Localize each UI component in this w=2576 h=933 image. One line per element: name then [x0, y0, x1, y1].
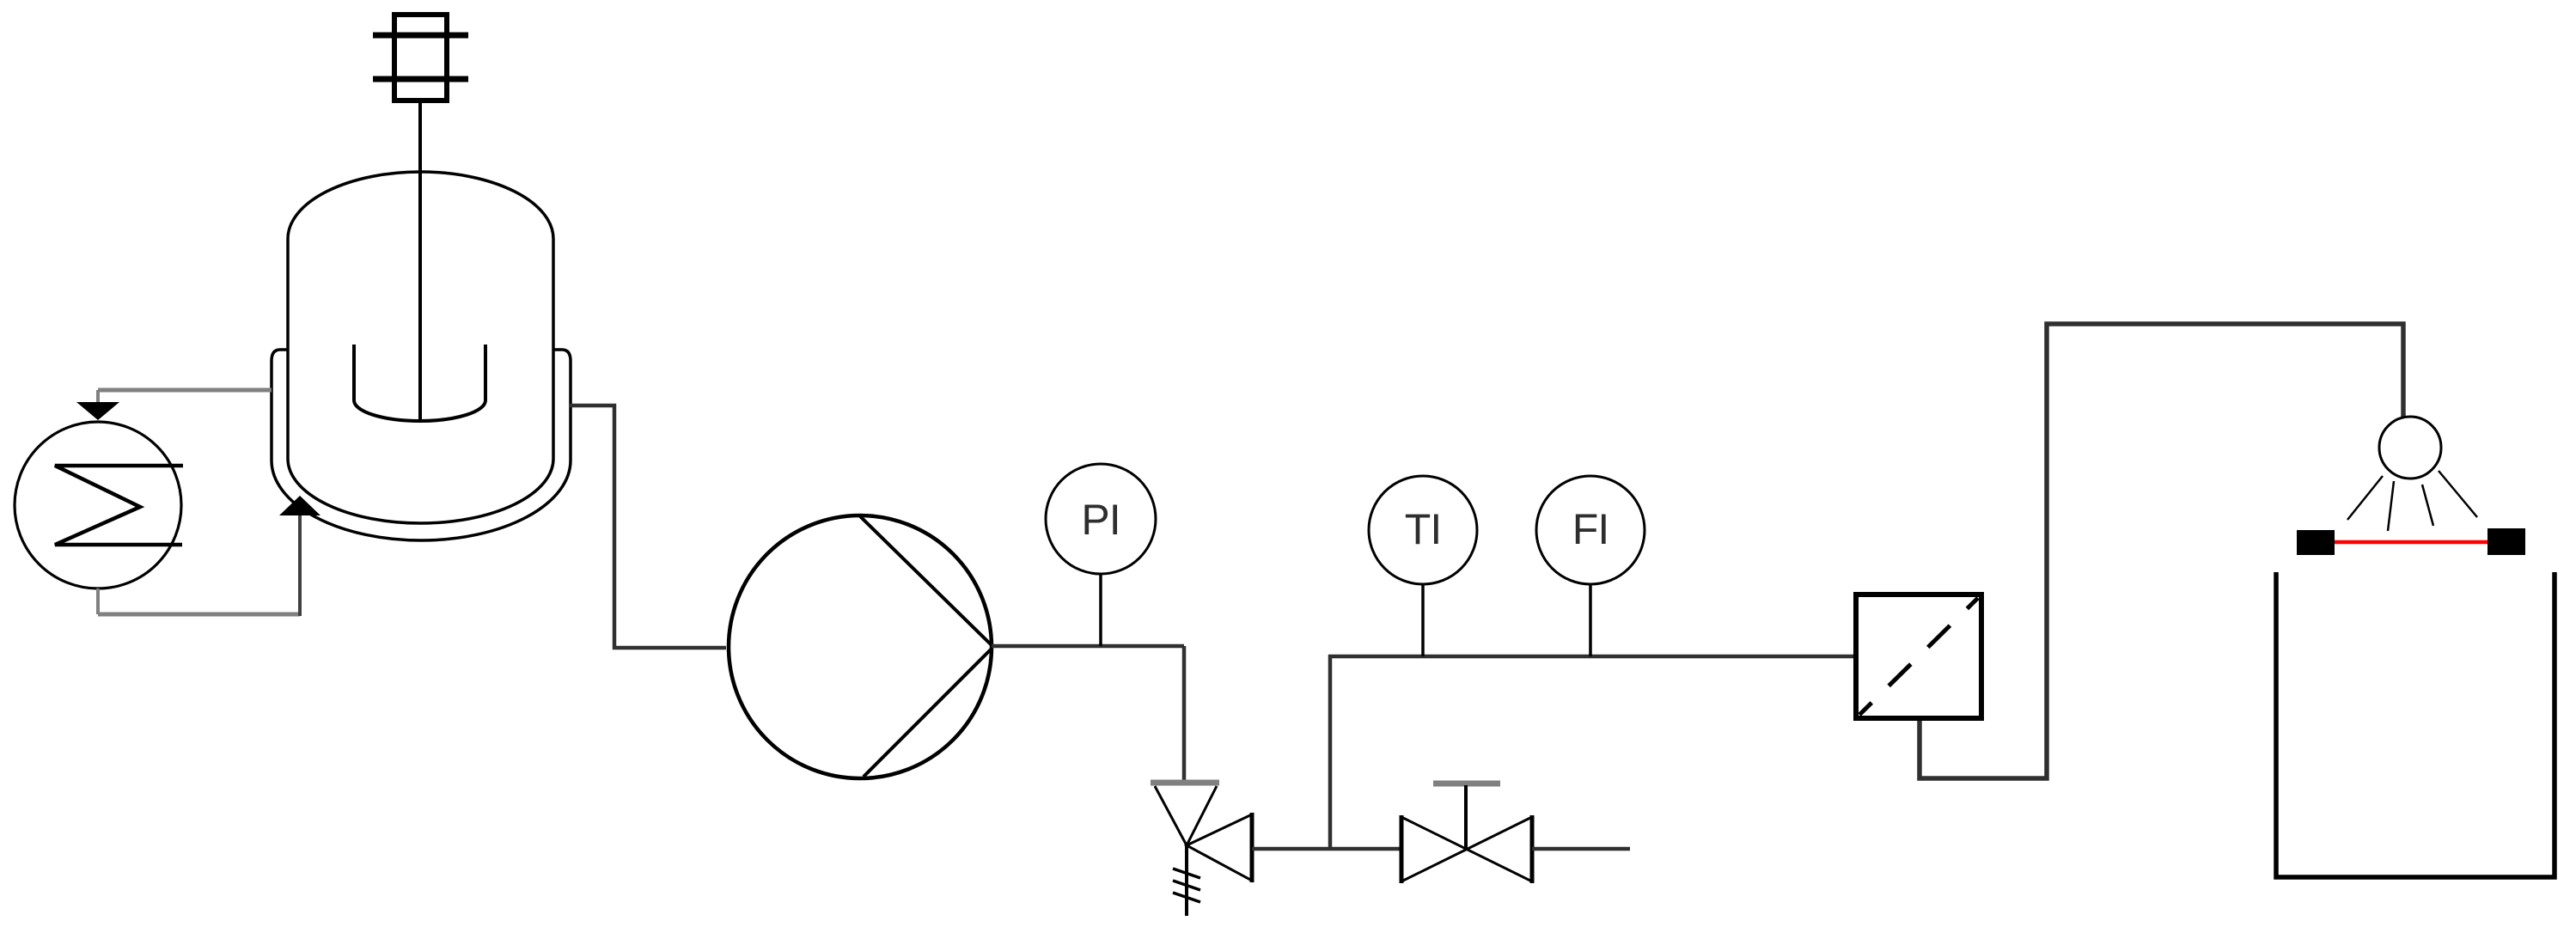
sparger tube (red) — [2335, 540, 2487, 545]
TI stem — [1421, 584, 1425, 656]
pump P1 — [729, 515, 992, 778]
spray line 4 — [2439, 471, 2477, 517]
impeller — [354, 345, 485, 421]
pipe: jacket outlet to heat exchanger (gray) — [98, 388, 272, 393]
gate valve right edge — [1530, 815, 1535, 883]
arrow into jacket bottom — [279, 496, 320, 515]
reactor vessel R1 — [288, 172, 553, 459]
pipe: HX to jacket return (gray) — [98, 613, 300, 617]
pipe: gate valve outlet stub — [1532, 847, 1630, 851]
spray nozzle — [2379, 417, 2441, 479]
arrow into heat exchanger — [76, 402, 119, 420]
gauge FI — [1536, 476, 1645, 584]
gate valve handle (gray) — [1433, 781, 1500, 787]
pipe: pump discharge — [992, 644, 1184, 649]
pipe: branch riser junction — [1328, 655, 1333, 849]
pipe: riser to jacket — [298, 514, 302, 616]
receiving tank T1 — [2276, 572, 2555, 877]
svg-text:TI: TI — [1405, 505, 1441, 553]
pipe: filter outlet to tank riser — [1920, 324, 2403, 778]
filter F1 — [1856, 595, 1981, 718]
relief valve side triangle edge — [1250, 813, 1254, 882]
heat exchanger coil — [55, 466, 183, 545]
spray line 3 — [2422, 485, 2433, 526]
heat exchanger E1 — [15, 422, 181, 588]
relief valve spring stem — [1185, 845, 1188, 916]
pipe: relief valve outlet — [1252, 847, 1401, 851]
vessel dished bottom — [288, 459, 553, 523]
relief valve spring hatch 3 — [1173, 893, 1200, 902]
pump vane upper — [860, 516, 991, 644]
relief valve spring hatch 2 — [1173, 881, 1200, 890]
relief valve spring hatch 1 — [1173, 869, 1200, 878]
gauge TI — [1369, 476, 1477, 584]
relief valve PSV seat bar (gray) — [1151, 780, 1219, 786]
gauge PI — [1046, 464, 1156, 574]
spray line 1 — [2347, 476, 2383, 520]
gate valve left edge — [1400, 815, 1404, 883]
FI stem — [1589, 584, 1592, 656]
PI stem — [1099, 574, 1102, 646]
pipe: down to relief valve — [1182, 646, 1187, 783]
pipe: HX bottom outlet (gray) — [96, 588, 100, 614]
svg-text:PI: PI — [1081, 496, 1120, 544]
svg-text:FI: FI — [1572, 505, 1608, 553]
pipe: main line to filter — [1328, 655, 1853, 659]
relief valve side triangle — [1187, 814, 1252, 881]
agitator motor M1 — [373, 15, 468, 101]
sparger block left — [2297, 530, 2335, 555]
pump vane lower — [864, 649, 991, 777]
gate valve body diagonals — [1401, 817, 1532, 881]
sparger block right — [2487, 528, 2525, 555]
vessel jacket — [272, 350, 571, 540]
relief valve upper triangle — [1155, 786, 1217, 845]
pipe: stub into HX top — [96, 390, 100, 404]
pipe: vessel outlet — [570, 406, 726, 648]
spray line 2 — [2388, 481, 2394, 531]
agitator shaft — [418, 100, 422, 420]
filter diagonal (dashed) — [1859, 598, 1978, 715]
gate valve stem — [1464, 785, 1468, 849]
